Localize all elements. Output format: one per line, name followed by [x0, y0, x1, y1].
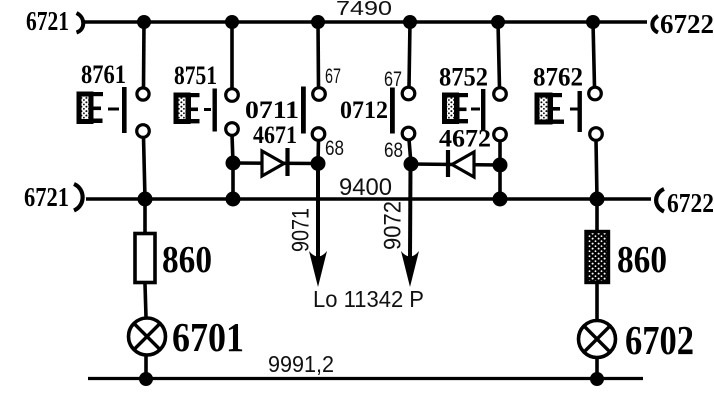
svg-text:8762: 8762 [533, 63, 583, 92]
svg-text:0712: 0712 [340, 97, 388, 124]
svg-text:860: 860 [162, 239, 212, 281]
svg-text:8752: 8752 [439, 63, 488, 92]
svg-text:9991,2: 9991,2 [268, 351, 334, 377]
svg-text:9072: 9072 [380, 201, 407, 250]
svg-text:67: 67 [384, 68, 402, 91]
svg-text:860: 860 [617, 239, 667, 281]
svg-text:9400: 9400 [339, 174, 392, 201]
svg-text:6702: 6702 [625, 317, 694, 363]
svg-text:68: 68 [384, 139, 403, 162]
svg-text:Lo 11342 P: Lo 11342 P [313, 286, 424, 312]
svg-text:9071: 9071 [288, 208, 315, 252]
svg-text:4671: 4671 [253, 122, 297, 149]
svg-text:6722: 6722 [660, 9, 714, 39]
svg-text:68: 68 [325, 137, 344, 160]
svg-text:8751: 8751 [174, 61, 217, 90]
svg-text:6721: 6721 [24, 182, 69, 212]
svg-text:0711: 0711 [245, 97, 299, 124]
svg-text:6722: 6722 [667, 188, 714, 218]
svg-text:8761: 8761 [81, 60, 126, 89]
svg-text:67: 67 [325, 65, 341, 88]
svg-text:6701: 6701 [172, 314, 244, 360]
svg-text:7490: 7490 [336, 0, 392, 20]
svg-text:6721: 6721 [26, 6, 69, 36]
